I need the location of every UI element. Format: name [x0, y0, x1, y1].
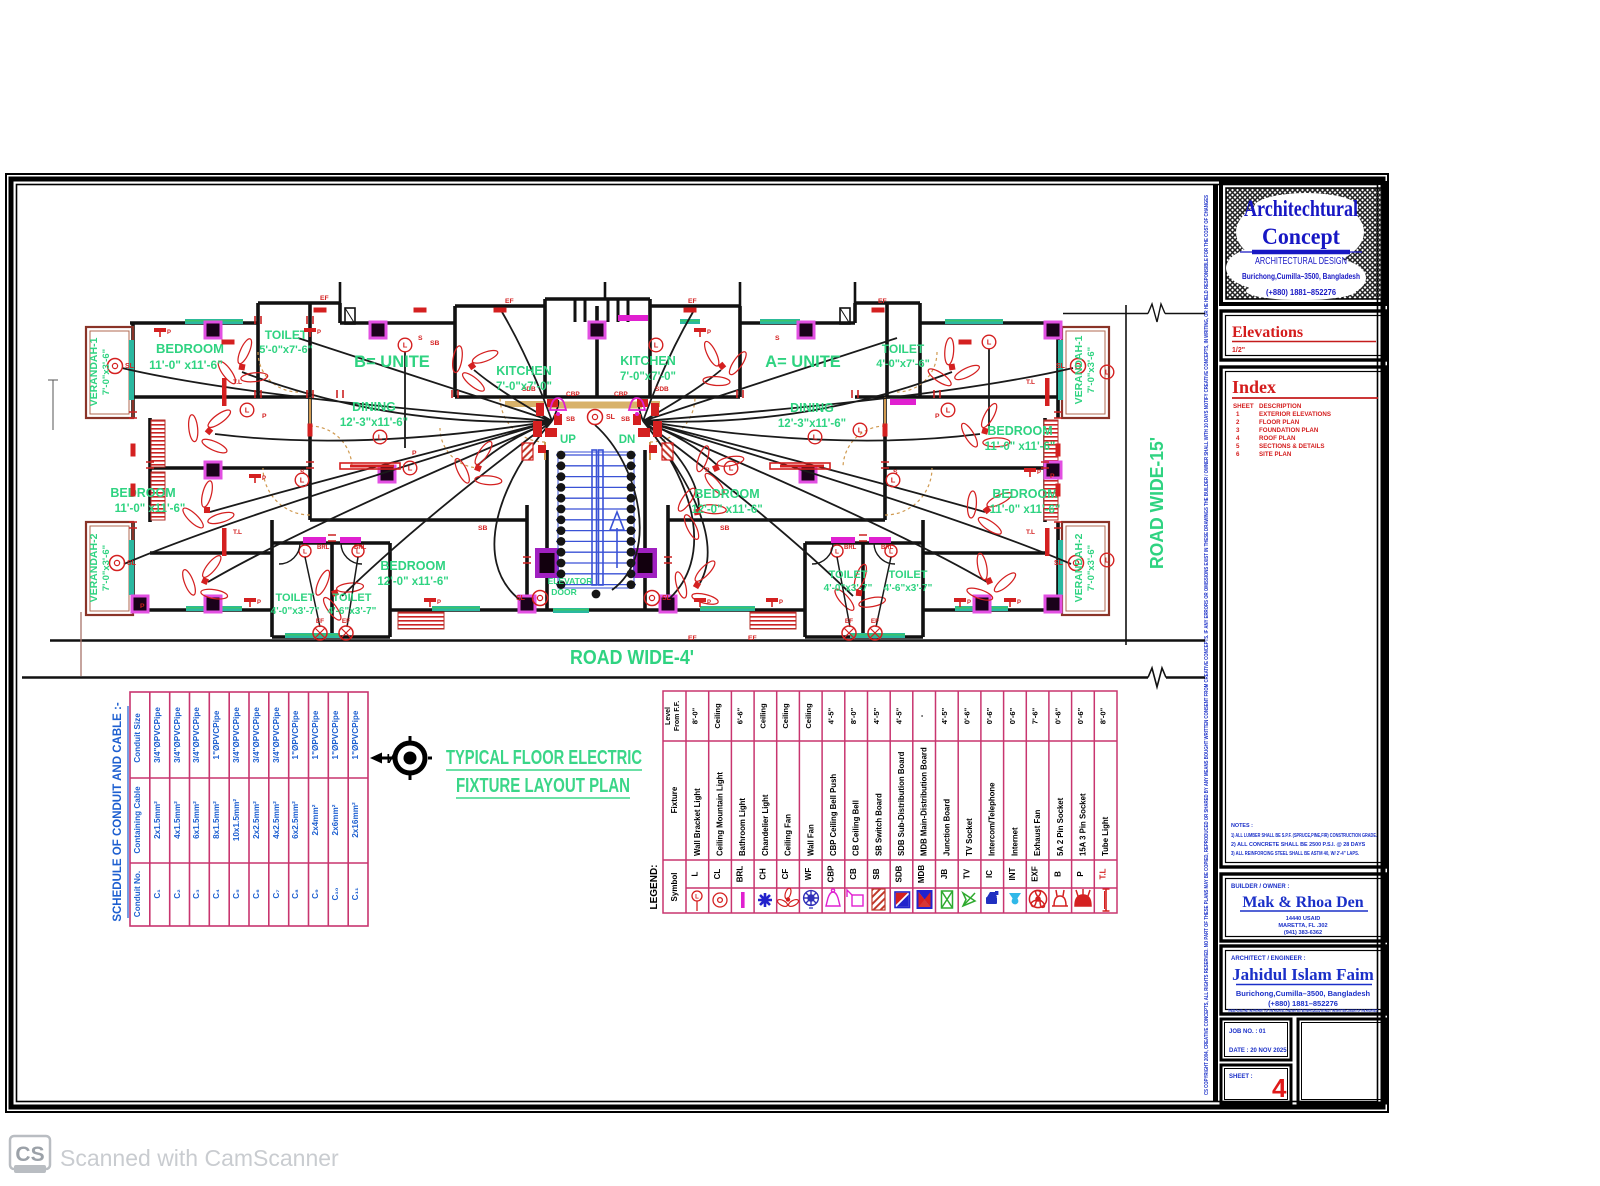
right dimension vertical line [1125, 305, 1127, 645]
svg-text:Jahidul Islam Faim: Jahidul Islam Faim [1232, 965, 1374, 984]
tube lights TL [222, 378, 227, 406]
svg-text:0'-6": 0'-6" [985, 707, 994, 724]
svg-text:8'-0": 8'-0" [690, 707, 699, 724]
svg-text:3/4"ØPVCPipe: 3/4"ØPVCPipe [192, 707, 201, 763]
svg-text:12'-3"x11'-6": 12'-3"x11'-6" [778, 418, 846, 430]
exhaust fans [313, 626, 327, 640]
svg-text:SL: SL [125, 363, 135, 370]
empty revision box [1298, 1019, 1386, 1103]
border frame thick line 2 [11, 179, 1383, 1107]
svg-text:NOTES :: NOTES : [1231, 823, 1253, 829]
svg-text:CB Ceiling Bell: CB Ceiling Bell [852, 800, 861, 856]
svg-text:CF: CF [781, 869, 790, 880]
legend icon CBP ceiling bell push [826, 889, 840, 906]
svg-text:Junction Board: Junction Board [942, 799, 951, 856]
svg-text:L: L [690, 871, 699, 876]
legend icon MDB main-distribution board [918, 891, 932, 908]
svg-text:1: 1 [1236, 411, 1240, 418]
floor plan walls [130, 299, 1058, 637]
svg-text:C₅: C₅ [232, 889, 241, 899]
svg-text:1/2": 1/2" [1232, 347, 1245, 354]
road break zigzag [1148, 668, 1166, 687]
road line upper [50, 639, 1205, 641]
svg-text:1"ØPVCPipe: 1"ØPVCPipe [291, 710, 300, 759]
legend icon BRL bathroom light [741, 892, 745, 908]
magenta door strips [303, 537, 326, 543]
legend table [663, 691, 1117, 913]
legend icon B 5A 2pin socket [1052, 890, 1068, 906]
svg-text:EF: EF [688, 635, 697, 642]
svg-text:C₉: C₉ [311, 889, 320, 899]
svg-text:(941) 383-6362: (941) 383-6362 [1284, 930, 1322, 936]
svg-text:L: L [695, 895, 699, 901]
svg-text:TOILET: TOILET [265, 328, 308, 342]
svg-text:CL: CL [713, 869, 722, 880]
svg-text:1) ALL LUMBER SHALL BE S.P.F.: 1) ALL LUMBER SHALL BE S.P.F. (SPRUCE,PI… [1231, 833, 1377, 839]
svg-text:12'-3"x11'-6": 12'-3"x11'-6" [340, 417, 408, 429]
svg-text:KITCHEN: KITCHEN [620, 354, 676, 368]
svg-text:P: P [412, 450, 417, 457]
svg-text:EXTERIOR ELEVATIONS: EXTERIOR ELEVATIONS [1259, 411, 1331, 418]
svg-text:6: 6 [1236, 451, 1240, 458]
stair dots [557, 451, 566, 460]
svg-text:1"ØPVCPipe: 1"ØPVCPipe [212, 710, 221, 759]
svg-text:10x1.5mm²: 10x1.5mm² [232, 799, 241, 842]
entry louver ticks [575, 299, 628, 322]
elevations box [1221, 311, 1387, 360]
svg-text:LEGEND:: LEGEND: [649, 865, 660, 910]
svg-text:11'-0" x11'-6": 11'-0" x11'-6" [115, 503, 186, 515]
svg-text:MDB: MDB [917, 865, 926, 883]
svg-text:8x1.5mm²: 8x1.5mm² [212, 801, 221, 839]
svg-text:Architechtural: Architechtural [1244, 196, 1358, 221]
svg-text:Ceiling Mountain Light: Ceiling Mountain Light [716, 772, 725, 856]
outer border frame line 1 [6, 174, 1388, 1112]
svg-text:EF: EF [505, 298, 514, 305]
svg-text:BEDROOM: BEDROOM [992, 487, 1057, 501]
svg-text:0'-6": 0'-6" [1008, 707, 1017, 724]
right dimension top line with break [1063, 313, 1205, 315]
svg-text:2x1.5mm²: 2x1.5mm² [153, 801, 162, 839]
door swing arcs [310, 426, 352, 468]
svg-text:Elevations: Elevations [1232, 324, 1303, 341]
hatched stair strips [151, 420, 165, 467]
svg-text:P: P [779, 600, 783, 606]
svg-text:4'-0"x7'-6": 4'-0"x7'-6" [876, 358, 930, 370]
svg-text:6x1.5mm²: 6x1.5mm² [192, 801, 201, 839]
svg-text:L: L [813, 433, 818, 442]
svg-text:2) ALL CONCRETE SHALL BE 2500: 2) ALL CONCRETE SHALL BE 2500 P.S.I. @ 2… [1231, 842, 1366, 848]
svg-text:Burichong,Cumilla–3500, Bangla: Burichong,Cumilla–3500, Bangladesh [1236, 989, 1371, 998]
svg-text:TV: TV [963, 868, 972, 879]
svg-text:0'-6": 0'-6" [1076, 707, 1085, 724]
svg-text:L: L [729, 464, 734, 473]
svg-text:TV Socket: TV Socket [965, 818, 974, 856]
svg-text:P: P [705, 467, 710, 474]
svg-text:5A 2 Pin Socket: 5A 2 Pin Socket [1056, 797, 1065, 856]
svg-text:From F.F.: From F.F. [674, 701, 681, 731]
svg-text:4x2.5mm²: 4x2.5mm² [272, 801, 281, 839]
svg-text:SB: SB [478, 525, 488, 532]
svg-text:Ceiling Fan: Ceiling Fan [784, 814, 793, 856]
verandah 2 right [1062, 522, 1109, 615]
index box [1221, 367, 1387, 867]
kitchen counters tan [505, 401, 660, 407]
svg-text:SB Switch Board: SB Switch Board [874, 793, 883, 856]
svg-text:L: L [946, 406, 951, 415]
svg-text:L: L [378, 433, 383, 442]
svg-text:SDB Sub-Distribution Board: SDB Sub-Distribution Board [897, 751, 906, 856]
svg-text:DINING: DINING [790, 401, 834, 415]
staircase [556, 452, 636, 588]
svg-text:BRL: BRL [844, 545, 857, 551]
legend icon CB ceiling bell [847, 890, 863, 906]
svg-text:TOILET: TOILET [333, 592, 372, 604]
property line left [80, 612, 82, 676]
svg-text:P: P [437, 600, 441, 606]
left small dimension tick [48, 380, 58, 430]
builder owner box [1221, 874, 1387, 941]
svg-text:Containing Cable: Containing Cable [133, 786, 142, 854]
svg-text:1"ØPVCPipe: 1"ØPVCPipe [311, 710, 320, 759]
svg-text:DATE : 20 NOV 2025: DATE : 20 NOV 2025 [1229, 1048, 1287, 1054]
camscanner CS logo [10, 1136, 50, 1173]
svg-text:Wall Fan: Wall Fan [806, 824, 815, 856]
svg-text:7'-0"x7'-0": 7'-0"x7'-0" [496, 381, 552, 393]
svg-text:VERANDAH-2: VERANDAH-2 [88, 533, 100, 602]
bell push magenta [550, 398, 566, 410]
legend icon IC intercom [986, 891, 998, 904]
stair columns [535, 548, 559, 578]
svg-text:5'-0"x7'-6": 5'-0"x7'-6" [259, 344, 313, 356]
svg-text:4'-5": 4'-5" [826, 707, 835, 724]
svg-text:SDB: SDB [655, 386, 669, 393]
svg-text:VERANDAH-1: VERANDAH-1 [1073, 335, 1085, 404]
svg-text:C₄: C₄ [212, 889, 221, 899]
svg-text:P: P [262, 476, 266, 482]
svg-text:L: L [1105, 368, 1110, 377]
svg-text:11'-0" x11'-6": 11'-0" x11'-6" [149, 358, 223, 372]
legend icon EXF exhaust fan [1029, 890, 1046, 907]
svg-text:SB: SB [430, 340, 440, 347]
svg-text:CS COPYRIGHT 2004, CREATIVE CO: CS COPYRIGHT 2004, CREATIVE CONCEPTS, AL… [1204, 195, 1210, 1095]
svg-text:S: S [418, 335, 423, 342]
svg-text:(+880) 1881–852276: (+880) 1881–852276 [1266, 288, 1337, 297]
svg-text:C₃: C₃ [192, 889, 201, 899]
svg-text:Conduit No.: Conduit No. [133, 871, 142, 917]
svg-text:CBP: CBP [566, 391, 580, 398]
svg-text:L: L [403, 341, 408, 350]
svg-text:L: L [1105, 556, 1110, 565]
verandah 2 left [86, 522, 133, 615]
svg-text:7'-0"x7'-0": 7'-0"x7'-0" [620, 371, 676, 383]
sheet number box [1221, 1065, 1291, 1103]
svg-text:DOOR: DOOR [551, 587, 577, 597]
svg-text:SL: SL [662, 595, 672, 602]
toilet door arcs [279, 543, 895, 564]
svg-text:Intercom/Telephone: Intercom/Telephone [988, 782, 997, 856]
svg-text:TOILET: TOILET [276, 592, 315, 604]
window strips [185, 319, 243, 324]
svg-text:L: L [891, 476, 896, 485]
legend icon CH chandelier light [758, 893, 772, 907]
svg-text:L: L [987, 338, 992, 347]
svg-text:T.L: T.L [1099, 868, 1108, 879]
svg-text:BRL: BRL [317, 545, 330, 551]
svg-text:8'-0": 8'-0" [1099, 707, 1108, 724]
svg-text:CB: CB [849, 868, 858, 880]
verandah 1 left [86, 327, 133, 418]
architect engineer box [1221, 946, 1387, 1014]
svg-text:BUILDER / OWNER :: BUILDER / OWNER : [1231, 884, 1289, 890]
svg-text:3/4"ØPVCPipe: 3/4"ØPVCPipe [173, 707, 182, 763]
svg-text:Scanned with CamScanner: Scanned with CamScanner [60, 1145, 339, 1171]
svg-text:6x2.5mm²: 6x2.5mm² [291, 801, 300, 839]
svg-text:3/4"ØPVCPipe: 3/4"ØPVCPipe [272, 707, 281, 763]
svg-text:14440 USAID: 14440 USAID [1286, 916, 1321, 922]
svg-text:7'-0"x3'-6": 7'-0"x3'-6" [101, 545, 112, 591]
schedule table rotated blue text [133, 707, 360, 918]
svg-text:2x2.5mm²: 2x2.5mm² [252, 801, 261, 839]
svg-text:C₁: C₁ [153, 889, 162, 899]
svg-text:T.L: T.L [1026, 529, 1035, 536]
svg-text:TYPICAL FLOOR ELECTRIC: TYPICAL FLOOR ELECTRIC [446, 747, 642, 769]
svg-text:L: L [300, 476, 305, 485]
SL lights [108, 359, 123, 374]
svg-text:T.L: T.L [233, 529, 242, 536]
legend icon SB switch board [872, 889, 885, 910]
svg-text:ROAD WIDE-15': ROAD WIDE-15' [1147, 437, 1167, 569]
svg-text:CH: CH [758, 868, 767, 880]
svg-text:6'-6": 6'-6" [736, 707, 745, 724]
svg-text:SB: SB [872, 868, 881, 879]
svg-text:7'-0"x3'-6": 7'-0"x3'-6" [1086, 347, 1097, 393]
svg-text:KITCHEN: KITCHEN [496, 364, 552, 378]
legend icon CL ceiling mountain light [713, 893, 727, 907]
svg-text:THESE PLANS ARE THE PROPERTY O: THESE PLANS ARE THE PROPERTY OF THE ARCH… [1228, 1008, 1378, 1013]
svg-text:11'-0" x11'-6": 11'-0" x11'-6" [990, 504, 1061, 516]
title block divider vertical bar [1213, 184, 1218, 1102]
svg-text:C₁₁: C₁₁ [351, 887, 360, 900]
svg-text:Chandelier Light: Chandelier Light [761, 794, 770, 856]
svg-text:3/4"ØPVCPipe: 3/4"ØPVCPipe [232, 707, 241, 763]
svg-text:MDB Main-Distribution Board: MDB Main-Distribution Board [920, 747, 929, 856]
svg-text:B= UNITE: B= UNITE [354, 353, 430, 371]
svg-text:4'-5": 4'-5" [872, 707, 881, 724]
svg-text:Tube Light: Tube Light [1101, 816, 1110, 856]
svg-text:S: S [300, 469, 305, 476]
svg-text:EF: EF [871, 618, 879, 625]
svg-text:P: P [167, 330, 171, 336]
schedule table grid [130, 692, 368, 926]
svg-text:4'-5": 4'-5" [940, 707, 949, 724]
svg-text:N: N [387, 751, 396, 766]
svg-text:SB: SB [720, 525, 730, 532]
svg-text:12'-0" x11'-6": 12'-0" x11'-6" [377, 576, 448, 588]
svg-text:8'-0": 8'-0" [849, 707, 858, 724]
svg-text:P: P [707, 600, 711, 606]
svg-text:1"ØPVCPipe: 1"ØPVCPipe [351, 710, 360, 759]
svg-text:C₁₀: C₁₀ [331, 887, 340, 900]
svg-text:P: P [707, 330, 711, 336]
svg-text:P: P [262, 413, 267, 420]
svg-text:EF: EF [688, 298, 697, 305]
svg-text:Burichong,Cumilla–3500, Bangla: Burichong,Cumilla–3500, Bangladesh [1242, 272, 1360, 281]
svg-text:DESCRIPTION: DESCRIPTION [1259, 403, 1302, 410]
svg-text:EF: EF [878, 298, 887, 305]
svg-text:P: P [317, 330, 321, 336]
svg-text:Level: Level [665, 707, 672, 725]
svg-text:Ceiling: Ceiling [758, 703, 767, 729]
svg-text:ARCHITECTURAL DESIGN: ARCHITECTURAL DESIGN [1255, 256, 1347, 267]
svg-text:S: S [893, 469, 898, 476]
svg-text:EF: EF [342, 618, 350, 625]
svg-text:EF: EF [748, 635, 757, 642]
svg-text:5: 5 [1236, 443, 1240, 450]
svg-text:P: P [257, 600, 261, 606]
svg-text:P: P [1050, 473, 1055, 480]
svg-text:SL: SL [516, 595, 526, 602]
svg-text:SHEET: SHEET [1233, 403, 1254, 410]
svg-text:SHEET :: SHEET : [1229, 1074, 1253, 1080]
svg-text:BEDROOM: BEDROOM [380, 559, 445, 573]
legend icon TV socket [963, 893, 975, 906]
svg-text:Concept: Concept [1262, 224, 1340, 249]
svg-text:P: P [1076, 871, 1085, 877]
svg-text:Ceiling: Ceiling [713, 703, 722, 729]
svg-text:TOILET: TOILET [882, 342, 925, 356]
svg-text:C₈: C₈ [291, 889, 300, 899]
light points [240, 403, 254, 417]
svg-text:0'-6": 0'-6" [1053, 707, 1062, 724]
svg-text:4'-5": 4'-5" [895, 707, 904, 724]
border frame inner line 3 [17, 185, 1378, 1102]
svg-text:SL: SL [606, 414, 616, 421]
svg-text:Index: Index [1232, 377, 1276, 397]
switchboard hub left [522, 399, 562, 460]
svg-text:12'-0" x11'-6": 12'-0" x11'-6" [691, 504, 762, 516]
door jamb marks [129, 316, 1062, 563]
legend icon SDB sub-distribution board [895, 892, 910, 908]
columns [204, 321, 223, 340]
svg-text:P: P [967, 600, 971, 606]
svg-text:VERANDAH-1: VERANDAH-1 [88, 337, 100, 406]
svg-text:EF: EF [320, 295, 329, 302]
svg-text:CBP: CBP [826, 865, 835, 883]
svg-text:SL: SL [1054, 560, 1064, 567]
svg-text:EF: EF [316, 618, 324, 625]
svg-text:DN: DN [619, 434, 636, 446]
svg-text:(+880) 1881–852276: (+880) 1881–852276 [1268, 999, 1338, 1008]
svg-text:FLOOR PLAN: FLOOR PLAN [1259, 419, 1300, 426]
svg-text:C₂: C₂ [173, 889, 182, 899]
wall bracket marks [494, 308, 507, 313]
svg-text:BEDROOM: BEDROOM [110, 486, 175, 500]
svg-text:A= UNITE: A= UNITE [765, 353, 841, 371]
svg-text:7'-0"x3'-6": 7'-0"x3'-6" [1086, 545, 1097, 591]
svg-text:B: B [1053, 871, 1062, 877]
svg-text:11'-0" x11'-6": 11'-0" x11'-6" [985, 441, 1056, 453]
door rects [345, 308, 355, 324]
svg-text:Symbol: Symbol [670, 873, 679, 902]
legend icon L wall bracket light [692, 891, 702, 911]
svg-text:4'-6"x3'-7": 4'-6"x3'-7" [328, 606, 377, 617]
svg-text:C₆: C₆ [252, 889, 261, 899]
svg-text:BEDROOM: BEDROOM [156, 341, 224, 356]
svg-text:S: S [775, 335, 780, 342]
svg-text:EF: EF [845, 618, 853, 625]
svg-text:0'-6": 0'-6" [963, 707, 972, 724]
svg-text:7'-0"x3'-6": 7'-0"x3'-6" [101, 349, 112, 395]
job no date box [1221, 1019, 1291, 1060]
svg-text:Bathroom Light: Bathroom Light [738, 798, 747, 856]
svg-text:2x16mm²: 2x16mm² [351, 802, 360, 838]
svg-text:15A 3 Pin Socket: 15A 3 Pin Socket [1079, 793, 1088, 856]
svg-text:2x4mm²: 2x4mm² [311, 804, 320, 835]
wall sockets [244, 598, 256, 602]
svg-text:Ceiling: Ceiling [781, 703, 790, 729]
svg-text:SB: SB [621, 416, 630, 423]
svg-text:3/4"ØPVCPipe: 3/4"ØPVCPipe [153, 707, 162, 763]
svg-text:L: L [245, 406, 250, 415]
svg-text:P: P [1017, 600, 1021, 606]
svg-text:JOB NO. : 01: JOB NO. : 01 [1229, 1029, 1266, 1035]
svg-text:TOILET: TOILET [889, 569, 928, 581]
legend icon TL tube light [1103, 889, 1110, 911]
svg-text:T.L: T.L [233, 379, 242, 386]
svg-text:SL: SL [1056, 363, 1066, 370]
svg-text:Internet: Internet [1010, 827, 1019, 856]
svg-text:FIXTURE LAYOUT PLAN: FIXTURE LAYOUT PLAN [456, 775, 630, 797]
svg-text:Conduit Size: Conduit Size [133, 713, 142, 763]
stair arrow [616, 528, 618, 568]
svg-text:ARCHITECT / ENGINEER :: ARCHITECT / ENGINEER : [1231, 956, 1306, 962]
svg-text:BRL: BRL [354, 545, 367, 551]
svg-text:7'-6": 7'-6" [1031, 707, 1040, 724]
svg-text:EXF: EXF [1031, 866, 1040, 882]
svg-text:3) ALL REINFORCING STEEL SHALL: 3) ALL REINFORCING STEEL SHALL BE ASTM 4… [1231, 851, 1359, 857]
svg-text:3/4"ØPVCPipe: 3/4"ØPVCPipe [252, 707, 261, 763]
svg-text:WF: WF [804, 868, 813, 881]
svg-text:Exhaust Fan: Exhaust Fan [1033, 809, 1042, 856]
svg-text:CBP: CBP [614, 391, 628, 398]
svg-text:L: L [835, 548, 839, 555]
svg-text:4: 4 [1236, 435, 1240, 442]
svg-text:L: L [654, 341, 659, 350]
svg-text:SB: SB [566, 416, 575, 423]
svg-text:CBP Ceiling Bell Push: CBP Ceiling Bell Push [829, 774, 838, 856]
svg-text:SITE PLAN: SITE PLAN [1259, 451, 1292, 458]
road line lower with break [22, 676, 1205, 678]
svg-text:P: P [1037, 470, 1041, 476]
svg-text:MARETTA, FL .302: MARETTA, FL .302 [1278, 923, 1327, 929]
verandah 1 right [1062, 327, 1109, 418]
svg-text:TOILET: TOILET [829, 569, 868, 581]
svg-text:ROOF PLAN: ROOF PLAN [1259, 435, 1296, 442]
svg-text:L: L [408, 464, 413, 473]
svg-text:SDB: SDB [895, 865, 904, 882]
svg-text:2x6mm²: 2x6mm² [331, 804, 340, 835]
svg-text:CS: CS [15, 1143, 44, 1166]
svg-text:1"ØPVCPipe: 1"ØPVCPipe [331, 710, 340, 759]
svg-text:BRL: BRL [881, 545, 894, 551]
svg-text:SCHEDULE OF CONDUIT AND CABLE: SCHEDULE OF CONDUIT AND CABLE :- [112, 702, 124, 922]
svg-text:L: L [858, 426, 863, 435]
svg-text:4'-6"x3'-7": 4'-6"x3'-7" [884, 583, 933, 594]
svg-text:Fixture: Fixture [670, 786, 679, 813]
svg-text:4: 4 [1272, 1073, 1287, 1103]
svg-text:FOUNDATION PLAN: FOUNDATION PLAN [1259, 427, 1319, 434]
